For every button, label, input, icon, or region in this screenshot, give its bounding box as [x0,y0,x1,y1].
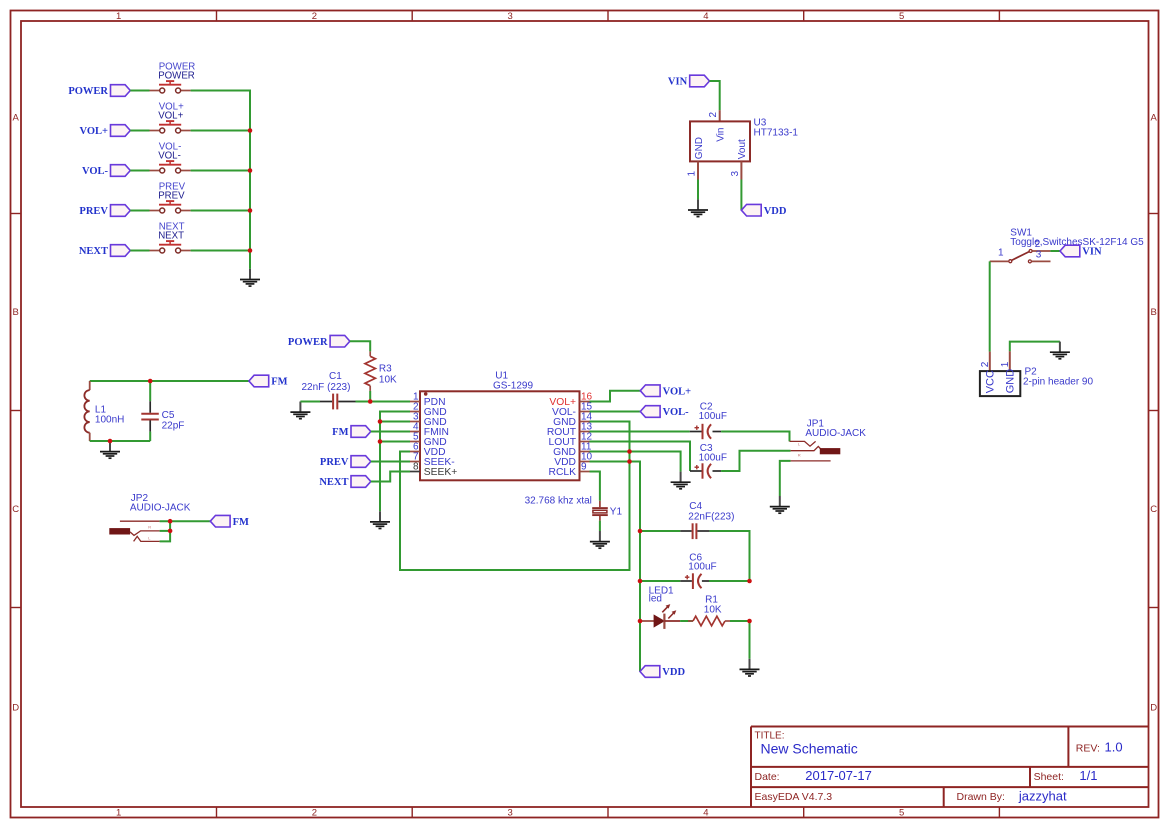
svg-text:RCLK: RCLK [549,467,577,478]
wire POWER to button [130,90,149,92]
svg-text:FM: FM [332,427,348,438]
svg-text:2: 2 [708,112,719,118]
svg-text:5: 5 [899,808,904,819]
wire SW1 pin1 to P2 VCC [989,261,991,351]
svg-text:R3: R3 [379,364,392,375]
U1 pin 3 GND [410,411,447,428]
push button POWER [150,62,196,94]
svg-text:FM: FM [271,377,287,388]
wire JP2 tip to FM [160,520,211,522]
svg-text:10K: 10K [704,604,722,615]
svg-text:B: B [1151,307,1157,318]
svg-text:L: L [798,442,801,447]
wire pin16 to VOL+ [590,391,641,402]
svg-text:1: 1 [116,808,121,819]
wire button VOL- to GND bus [191,170,250,172]
connector P2 2-pin header [980,361,1094,396]
svg-text:A: A [1151,112,1158,123]
svg-text:2: 2 [980,361,991,367]
toggle switch SW1 [990,228,1144,263]
svg-text:R: R [798,452,801,457]
svg-text:A: A [13,112,20,123]
U1 pin 2 GND [410,401,447,418]
junction JP2 tip [168,519,173,524]
P2 pin 1 stub [1009,351,1011,371]
U1 pin 12 LOUT [549,431,593,448]
U1 pin 16 VOL+ [549,391,592,408]
net flag VDD [640,666,685,678]
wire L1 C5 bottom [90,440,151,442]
svg-text:9: 9 [581,461,587,472]
junction C6 left [638,579,643,584]
wire pin13 to C2 [590,431,690,433]
P2 pin 2 stub [989,352,991,372]
svg-text:22nF (223): 22nF (223) [302,382,351,393]
wire pin11 to ground [590,452,681,472]
wire U1 pin2 GND bus [380,412,410,512]
wire C2 to JP1 tip [721,432,789,442]
svg-text:POWER: POWER [288,337,328,348]
svg-text:5: 5 [899,11,904,22]
audio jack JP1 [790,418,867,461]
svg-text:POWER: POWER [158,71,195,82]
net flag FM [210,515,249,527]
svg-text:1/1: 1/1 [1079,768,1097,783]
svg-text:PREV: PREV [79,206,108,217]
wire button NEXT to GND bus [191,250,250,252]
svg-text:32.768 khz xtal: 32.768 khz xtal [525,495,592,506]
audio jack JP2 [109,493,190,541]
net flag FM [332,426,371,438]
svg-text:jazzyhat: jazzyhat [1018,788,1067,803]
ground [688,199,708,216]
junction GND bus VOL- [248,168,253,173]
wire ground to C1 [300,401,320,403]
wire C4 left [640,530,680,532]
wire pin12 to C3 [590,442,691,472]
svg-text:10K: 10K [379,374,397,385]
wire pin15 to VOL- [590,411,641,413]
svg-text:VOL+: VOL+ [158,111,183,122]
svg-text:led: led [649,594,662,605]
U3 pin 2 stub [719,110,721,121]
push button VOL- [150,142,191,174]
wire P2 GND to ground [1010,342,1060,352]
wire pin3 [380,421,410,423]
wire C1 to U1 pin1 [356,401,411,403]
IC U1 GS-1299 [420,370,580,480]
svg-text:FM: FM [233,517,249,528]
svg-text:GND: GND [1005,369,1017,394]
svg-text:C1: C1 [329,371,342,382]
capacitor C2 [690,402,727,440]
svg-text:PREV: PREV [158,191,185,202]
svg-text:1: 1 [1000,361,1011,367]
svg-text:VOL+: VOL+ [79,126,108,137]
svg-text:VIN: VIN [1082,247,1102,258]
svg-text:22nF(223): 22nF(223) [688,512,734,523]
wire pin6 VDD loop [400,422,630,571]
capacitor C6 100uF [680,552,716,589]
ground [240,269,260,286]
net flag PREV [79,205,130,217]
wire JP2 ring [160,530,171,532]
push button VOL+ [150,102,191,134]
junction bottom ground [108,439,113,444]
junction GND bus VOL+ [248,128,253,133]
svg-text:VDD: VDD [662,667,685,678]
junction GND bus PREV [248,208,253,213]
svg-text:2-pin header 90: 2-pin header 90 [1023,376,1093,387]
svg-text:VOL-: VOL- [82,166,109,177]
wire VIN to U3 pin2 [710,81,720,110]
wire FM to pin4 [371,431,410,433]
inductor L1 [84,381,124,441]
net flag VDD [741,204,786,216]
svg-text:2017-07-17: 2017-07-17 [805,768,872,783]
push button NEXT [150,222,191,254]
svg-text:22pF: 22pF [162,420,185,431]
junction GND bus pin3 [378,419,383,424]
wire PREV to button [130,210,149,212]
junction pin11 bus [627,449,632,454]
capacitor C1 22nF [302,371,356,409]
resistor R1 10K [688,595,730,626]
svg-text:NEXT: NEXT [158,231,184,242]
U1 pin 6 VDD [410,441,446,458]
net flag PREV [320,456,371,468]
svg-text:PREV: PREV [320,457,349,468]
svg-text:Sheet:: Sheet: [1034,771,1064,783]
capacitor C5 [141,401,184,431]
wire pin5 [380,441,410,443]
svg-text:REV:: REV: [1076,742,1100,754]
ground [370,511,390,528]
svg-text:D: D [1150,702,1157,713]
svg-text:GS-1299: GS-1299 [493,381,533,392]
net flag POWER [68,85,130,97]
wire pin10 VDD rail [590,462,641,672]
ground [1050,342,1070,359]
U1 pin 7 SEEK- [410,451,455,468]
svg-text:100uF: 100uF [699,411,727,422]
net flag VOL- [82,165,130,177]
ground [290,402,310,419]
U1 pin 11 GND [553,441,592,458]
net flag FM [249,375,288,387]
svg-text:NEXT: NEXT [79,246,108,257]
wire NEXT to button [130,250,149,252]
svg-text:POWER: POWER [68,86,108,97]
junction R3 C1 PDN [368,399,373,404]
net flag VIN [1060,245,1102,257]
junction GND bus pin5 [378,439,383,444]
svg-text:C: C [12,504,19,515]
net flag VOL+ [79,125,130,137]
svg-text:GND: GND [694,137,705,159]
svg-text:100uF: 100uF [688,561,716,572]
wire LED to R1 [680,620,693,622]
wire right rail to ground [749,621,751,659]
U1 pin 1 PDN [410,391,446,408]
svg-text:1: 1 [998,248,1004,259]
svg-text:L: L [148,535,151,540]
wire C6 right [709,580,750,582]
wire VOL+ to button [130,130,149,132]
svg-text:3: 3 [1036,250,1042,261]
svg-text:TITLE:: TITLE: [755,730,785,741]
U1 pin 15 VOL- [552,401,593,418]
net flag NEXT [79,245,130,257]
ground [100,441,120,458]
ground [770,496,790,513]
svg-text:Y1: Y1 [610,506,623,517]
U1 pin 4 FMIN [410,421,449,438]
junction LED left [638,619,643,624]
wire JP2 vertical [160,521,171,541]
U3 pin 1 stub [697,161,699,179]
wire LED left [639,620,642,622]
wire button VOL+ to GND bus [191,130,250,132]
U1 pin 9 RCLK [549,461,590,478]
svg-text:4: 4 [703,11,708,22]
svg-text:VOL+: VOL+ [663,386,692,397]
net flag NEXT [319,476,370,488]
wire U3 pin3 to VDD [740,180,742,211]
svg-text:NEXT: NEXT [319,477,348,488]
svg-text:Vin: Vin [716,128,727,142]
svg-text:AUDIO-JACK: AUDIO-JACK [805,428,866,439]
svg-text:B: B [13,307,19,318]
svg-text:SEEK+: SEEK+ [424,467,458,478]
wire C5 top [149,381,151,401]
svg-text:2: 2 [312,11,317,22]
svg-text:VDD: VDD [764,206,787,217]
svg-text:C5: C5 [162,410,175,421]
wire POWER to R3 [350,341,370,351]
svg-text:C: C [1150,504,1157,515]
svg-text:VOL-: VOL- [158,151,181,162]
svg-text:Drawn By:: Drawn By: [957,791,1005,803]
title block [751,727,1149,808]
wire Y1 to ground [599,521,601,531]
svg-text:100nH: 100nH [95,414,124,425]
svg-text:Vout: Vout [737,139,748,159]
net flag VOL+ [640,385,691,397]
wire C3 to JP1 ring [721,451,791,471]
wire NEXT to pin8 [371,472,410,482]
junction R1 right [747,619,752,624]
net flag POWER [288,335,350,347]
svg-text:8: 8 [413,461,419,472]
junction L1C5 top [148,379,153,384]
resistor R3 10K [365,351,397,391]
net flag VOL- [640,406,689,418]
svg-text:VCC: VCC [985,370,997,393]
regulator U3 HT7133-1 [687,112,799,177]
ground [671,472,691,489]
junction C4 left [638,529,643,534]
wire PREV to pin7 [371,461,410,463]
svg-text:D: D [12,702,19,713]
svg-text:VOL-: VOL- [663,407,690,418]
push button PREV [150,182,191,214]
junction GND bus NEXT [248,248,253,253]
svg-text:HT7133-1: HT7133-1 [754,128,799,139]
U1 pin 8 SEEK+ [410,461,457,478]
ground [590,531,610,548]
wire button PREV to GND bus [191,210,250,212]
svg-text:1: 1 [687,171,698,177]
wire JP1 sleeve to ground [780,461,791,496]
ground [740,659,760,676]
U1 pin 10 VDD [554,451,592,468]
wire R3 to junction [369,391,371,402]
svg-text:3: 3 [507,808,512,819]
capacitor C3 [690,443,727,479]
svg-text:4: 4 [703,808,708,819]
svg-text:1.0: 1.0 [1105,740,1123,755]
wire pin9 to Y1 [590,472,600,501]
U1 pin 5 GND [410,431,447,448]
junction C6 right [747,579,752,584]
U1 pin 14 GND [553,411,592,428]
junction JP2 ring [168,529,173,534]
svg-text:New Schematic: New Schematic [761,741,858,757]
capacitor C4 22nF [680,501,734,539]
wire U3 pin1 to ground [697,180,699,200]
svg-text:VIN: VIN [668,77,688,88]
wire L1 C5 top to FM [90,380,249,382]
wire C4 right [710,531,750,581]
U1 pin 13 ROUT [547,421,593,438]
wire C5 bottom [149,432,151,441]
svg-text:3: 3 [507,11,512,22]
svg-text:R: R [148,525,151,530]
LED LED1 [640,586,680,629]
wire C6 left [640,580,680,582]
svg-text:AUDIO-JACK: AUDIO-JACK [130,502,191,513]
crystal Y1 [525,495,623,520]
svg-text:C4: C4 [689,501,702,512]
svg-text:100uF: 100uF [699,453,727,464]
U3 pin 3 stub [740,161,742,179]
junction pin10 bus [627,459,632,464]
svg-text:2: 2 [312,808,317,819]
svg-text:EasyEDA V4.7.3: EasyEDA V4.7.3 [755,791,833,803]
wire R1 right [730,620,750,622]
svg-text:3: 3 [730,171,741,177]
svg-text:Date:: Date: [755,771,780,783]
wire button POWER to GND bus [191,91,250,269]
wire SW1 pin2 to VIN flag [1050,250,1060,252]
wire VOL- to button [130,170,149,172]
net flag VIN [668,75,710,87]
svg-text:1: 1 [116,11,121,22]
